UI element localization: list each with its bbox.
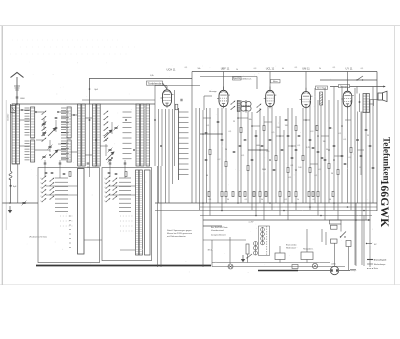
svg-text:UM 11: UM 11 (302, 67, 310, 71)
switch box1 thick bottom (36, 265, 211, 267)
svg-text:6,8k: 6,8k (150, 75, 153, 77)
svg-text:kurzgeschlossen: kurzgeschlossen (211, 235, 226, 237)
svg-text:Filter: Filter (273, 80, 278, 83)
wire grid bus y100 (82, 99, 155, 101)
svg-text:Skalenlampe: Skalenlampe (374, 264, 386, 266)
svg-text:0,1: 0,1 (242, 155, 245, 157)
svg-text:Gewitter: Gewitter (7, 113, 10, 121)
svg-text:5000: 5000 (262, 169, 266, 171)
scanned page edge (light) (0, 26, 400, 286)
svg-text:(2W): (2W) (331, 264, 335, 266)
svg-text:0,1: 0,1 (349, 157, 352, 159)
wire y76 drop x257 (256, 77, 258, 90)
svg-text:0,1: 0,1 (361, 68, 364, 70)
wires tuner horizontals (36, 140, 108, 146)
wire vertical x161 to bottom (160, 166, 162, 267)
svg-text:UY 11: UY 11 (346, 67, 354, 71)
svg-text:1k: 1k (236, 69, 238, 71)
wire mid horizontal y134 (200, 133, 222, 135)
waveband switch box S2 (102, 168, 152, 261)
resistor V1 right (175, 104, 178, 110)
svg-text:ca 9V: ca 9V (249, 222, 255, 224)
osc coil L5 contacts (61, 141, 66, 160)
wire tube V3 anode stub (269, 72, 271, 91)
svg-text:50: 50 (227, 199, 229, 201)
wires lower right verticals (335, 203, 365, 270)
junction dot AVC x90 (89, 88, 91, 90)
wire x174.6 vertical (174, 90, 176, 166)
svg-text:0,1: 0,1 (313, 199, 316, 201)
svg-text:6: 6 (41, 178, 42, 180)
junction dot (9, 202, 11, 204)
tuner coil L2 bar (31, 107, 35, 138)
contact arrow near V3 right (257, 104, 262, 113)
svg-text:2: 2 (105, 196, 106, 198)
svg-text:0,3: 0,3 (254, 68, 257, 70)
svg-text:0,2: 0,2 (218, 159, 221, 161)
svg-text:mit Röhrenvoltmeter: mit Röhrenvoltmeter (167, 235, 186, 238)
tuner coil L3 contacts (25, 141, 30, 160)
svg-text:6: 6 (105, 178, 106, 180)
dial lamp left (228, 264, 233, 269)
coil on left rail (9, 172, 12, 180)
contact arrows near V2 (231, 101, 236, 110)
svg-text:5000: 5000 (256, 145, 260, 147)
wire left rail x10.5 (10, 104, 12, 171)
wire mid horizontal y150 (248, 149, 268, 151)
svg-text:0,1: 0,1 (333, 67, 336, 69)
wire mains lead (298, 270, 350, 272)
note text Saemtliche Spannungen (167, 229, 193, 238)
svg-text:0,1: 0,1 (319, 169, 322, 171)
dotted fade lines box2 (120, 216, 133, 231)
chassis thick bar (258, 270, 298, 272)
note text mains block (211, 226, 228, 237)
svg-text:0,1: 0,1 (291, 165, 294, 167)
switch S1 coil form (78, 169, 85, 255)
cap near V1 right (181, 99, 182, 102)
svg-text:0,1: 0,1 (185, 67, 188, 69)
wires tuner interconnect (19, 110, 92, 155)
svg-text:Widerstand: Widerstand (286, 247, 296, 250)
svg-text:2: 2 (41, 196, 42, 198)
vertical bar x177 (178, 108, 180, 180)
svg-text:5k: 5k (261, 199, 263, 201)
svg-text:1M: 1M (323, 141, 326, 143)
wire label lead (163, 83, 168, 89)
wire bus y210 (155, 210, 377, 212)
wire V1 top hat (155, 86, 167, 105)
svg-text:UBF 11: UBF 11 (221, 67, 230, 71)
svg-text:2k: 2k (319, 68, 321, 70)
svg-text:1M: 1M (285, 125, 288, 127)
svg-text:Bei 110/130V Netz: Bei 110/130V Netz (211, 226, 228, 229)
svg-text:0,1: 0,1 (285, 199, 288, 201)
svg-text:60: 60 (206, 175, 208, 177)
svg-text:1k: 1k (297, 199, 299, 201)
capacitor row mid band (205, 132, 208, 133)
svg-text:25: 25 (233, 121, 235, 123)
tube V4 UM11 tuning eye (300, 88, 313, 109)
svg-text:Masse bei 220V gemessen: Masse bei 220V gemessen (167, 233, 193, 235)
tiny contact labels box2 (105, 178, 106, 203)
wires right section verticals (303, 87, 373, 268)
svg-text:m.Wellensch.: m.Wellensch. (240, 78, 252, 80)
svg-text:2M: 2M (277, 127, 280, 129)
heater pins column A (261, 228, 265, 232)
junction dots mid band (202, 117, 365, 221)
switch S1 dot column (69, 215, 70, 248)
wires into box tops (45, 160, 125, 178)
labels heater resistors (286, 244, 314, 251)
svg-text:Netzspul: Netzspul (340, 85, 348, 88)
antenna coil bars L1 (12, 104, 15, 164)
component on bus small rect (292, 265, 298, 269)
heater pins column B (254, 242, 258, 246)
svg-text:UCL 11: UCL 11 (266, 67, 275, 71)
label box Wellenschalter (147, 81, 163, 85)
svg-text:Sämtl. Spannungen gegen: Sämtl. Spannungen gegen (167, 229, 192, 232)
lightning arrester (11, 106, 16, 113)
label box bandfilter (233, 77, 242, 81)
svg-text:1: 1 (41, 201, 42, 203)
svg-text:0,1: 0,1 (229, 131, 232, 133)
wire main ground bus y203 (155, 202, 377, 204)
in-box caps row box1 (45, 172, 48, 173)
switch S1 second contact col (50, 178, 55, 200)
wire bus y207 (200, 206, 377, 208)
wire step joining buses (191, 72, 193, 204)
trimmer on ground bus (22, 201, 27, 206)
svg-text:Tonblende: Tonblende (148, 81, 162, 85)
IF transformer primary hatched bar (237, 101, 240, 112)
caps mid band extra (205, 159, 208, 160)
tiny contact labels box1 (41, 178, 42, 203)
wire tube V2 anode stub (223, 72, 225, 91)
resistor row above ground bus (208, 191, 210, 196)
wires speaker connect (357, 87, 378, 113)
wire top right y80 (320, 79, 377, 81)
svg-text:0,1: 0,1 (339, 133, 342, 135)
wire tonblende bus y85.6 (163, 85, 201, 87)
wire bus y262.5 (212, 262, 330, 264)
tube V3 UCL11 (264, 87, 277, 109)
svg-text:25: 25 (367, 135, 369, 137)
left page inner faint streak (5, 100, 7, 230)
osc coil L4 bar (67, 107, 71, 138)
ground symbol left (8, 206, 12, 213)
svg-text:166GWK: 166GWK (378, 180, 390, 228)
osc coil L5 bar (67, 140, 71, 162)
svg-text:4: 4 (105, 187, 106, 189)
tuner coil L3 bar (31, 140, 35, 162)
svg-text:0,1: 0,1 (245, 199, 248, 201)
junction dot left rail (10, 185, 12, 187)
contact arrow power (246, 254, 252, 259)
comb mid upper (123, 112, 132, 159)
svg-text:0,5: 0,5 (267, 151, 270, 153)
dropper resistor box B (301, 252, 313, 260)
label box Anzeige lampe (316, 86, 328, 90)
svg-text:50: 50 (329, 199, 331, 201)
svg-text:1: 1 (105, 201, 106, 203)
svg-text:5: 5 (105, 183, 106, 185)
svg-text:0,1: 0,1 (315, 175, 318, 177)
tuner coil L2 contacts (25, 108, 30, 135)
series resistor hatched x321 (320, 92, 323, 105)
resistor boxes right bottom group (330, 220, 342, 224)
tuner junction dots (16, 103, 162, 159)
svg-text:4k: 4k (282, 68, 284, 70)
switch S2 second contact col (113, 178, 118, 200)
wire bus y226 short (203, 225, 222, 227)
ground power section (241, 255, 245, 262)
wire right frame vertical (376, 72, 378, 212)
svg-text:0,25: 0,25 (306, 147, 310, 149)
wires IF-detector verticals (238, 100, 296, 220)
tube V2 UBF11 (217, 87, 230, 109)
tube V5 UY11 rectifier (341, 87, 354, 108)
scan speckles (18, 62, 373, 273)
svg-text:50: 50 (331, 173, 333, 175)
svg-text:0,1: 0,1 (298, 145, 301, 147)
wire AVC bus left (89, 78, 192, 80)
coil former bars x137-150 upper (136, 104, 140, 166)
dropper resistor box A (275, 253, 285, 260)
svg-text:10k: 10k (248, 119, 251, 121)
wire top HT bus (192, 71, 377, 73)
switch wiper arrows large (48, 128, 114, 160)
svg-text:0,1: 0,1 (295, 67, 298, 69)
switch contacts left column upper box1 (42, 111, 47, 142)
svg-text:3: 3 (41, 192, 42, 194)
trimmer bank 2 (108, 148, 113, 153)
switch S1 contact arrows col (42, 176, 47, 202)
svg-text:0,1: 0,1 (344, 139, 347, 141)
wire antenna coil lead down (17, 164, 19, 203)
mains filter choke (350, 269, 356, 270)
svg-text:100: 100 (298, 167, 301, 169)
wire bus y266.5 (212, 266, 345, 268)
svg-text:Anzeige: Anzeige (209, 90, 217, 93)
wire sperrkreis lead y76 (200, 76, 257, 78)
svg-text:(Praktisch 0,75 Grd.): (Praktisch 0,75 Grd.) (29, 236, 47, 239)
wires V2 region verticals (196, 108, 226, 267)
svg-text:38 4x: 38 4x (208, 250, 213, 252)
switch S2 comb (119, 178, 131, 212)
wires V1 electrode drops (155, 104, 173, 203)
svg-text:Netz: Netz (374, 267, 378, 270)
svg-text:50k: 50k (198, 68, 201, 70)
osc coil L4 contacts (61, 108, 66, 135)
label box Netzspule (339, 85, 350, 88)
svg-text:0,5: 0,5 (272, 132, 275, 134)
waveband switch box S1 (38, 168, 100, 263)
top right switch component (356, 76, 363, 81)
tuner box top edge (12, 103, 155, 105)
svg-text:0,3: 0,3 (311, 131, 314, 133)
heater chain dashed box (259, 226, 270, 256)
svg-text:4: 4 (41, 187, 42, 189)
wire tube V5 stub (347, 72, 349, 92)
in-box caps row box2 (108, 172, 111, 173)
comb left upper (61, 112, 69, 159)
speaker LS (378, 91, 387, 101)
mains plug P1 (330, 266, 338, 274)
wire grid cap V2 (204, 96, 212, 110)
IF transformer T2 coils (241, 100, 251, 113)
svg-text:50: 50 (225, 149, 227, 151)
svg-text:Eisen-Urdox: Eisen-Urdox (286, 244, 296, 247)
antenna A1 (11, 73, 24, 105)
wire tube V4 stub (305, 72, 307, 92)
caps row above switch boxes (44, 163, 47, 164)
svg-text:UCH 11: UCH 11 (166, 68, 176, 72)
switch S2 contact arrows col (106, 176, 111, 202)
switch S1 comb (55, 178, 68, 212)
box small (331, 239, 338, 243)
svg-text:5: 5 (41, 183, 42, 185)
switch contact comb x177-190 (179, 112, 189, 174)
svg-text:8: 8 (359, 167, 360, 169)
dial lamp right (312, 263, 317, 268)
padder caps mid (55, 117, 58, 118)
wire bus y215 (200, 215, 372, 217)
svg-text:0,1: 0,1 (289, 177, 292, 179)
switch contacts mid column upper (104, 111, 109, 142)
svg-text:Vorwiderstand: Vorwiderstand (211, 229, 224, 232)
svg-text:3: 3 (105, 192, 106, 194)
wire AVC drop at x90 (89, 79, 91, 105)
wire top right y86 with arrow (330, 86, 386, 88)
resistors mid band vertical (209, 149, 211, 154)
ballast resistor vertical (246, 244, 249, 254)
wires tuner vertical drops (44, 104, 112, 177)
label box right 1 (271, 80, 281, 84)
dotted fade lines box1 (60, 216, 74, 226)
svg-text:0,1: 0,1 (207, 125, 210, 127)
tube V1 UCH11 triode-hexode (161, 86, 174, 108)
junction dot speaker line (359, 101, 361, 103)
switch S2 coil forms (136, 170, 139, 255)
coil former bars mid-left (78, 104, 81, 166)
left page edge streak (1, 26, 3, 285)
short jog wires mid band (203, 112, 364, 204)
antenna series capacitor 6800pF (16, 97, 19, 98)
svg-text:Telefunken: Telefunken (382, 137, 392, 181)
trimmer bank left (42, 122, 47, 127)
in-box connector wires (46, 186, 136, 250)
svg-text:Heizwiderst.: Heizwiderst. (303, 248, 314, 251)
speckle rows scan noise (10, 40, 140, 54)
fuse (346, 241, 351, 247)
wires power section verticals (203, 229, 326, 267)
wire ground bus left y203 (2, 202, 38, 204)
contact to 4V (366, 243, 372, 244)
legend line Drossel (367, 259, 387, 270)
wire bus y220 with arrow (203, 219, 371, 221)
coil former bars mid-left 2 (93, 104, 96, 166)
svg-text:Drosselspule: Drosselspule (374, 259, 387, 261)
output transformer T-out (363, 94, 366, 113)
wire vertical x157.5 to bottom (157, 166, 159, 267)
mains switch (340, 232, 346, 238)
svg-text:50: 50 (326, 149, 328, 151)
wire heater chain (256, 227, 263, 255)
svg-text:0,1: 0,1 (209, 199, 212, 201)
